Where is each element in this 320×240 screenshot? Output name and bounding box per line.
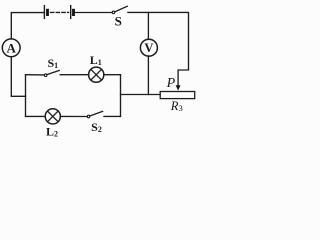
voltmeter V top lead: [147, 13, 149, 40]
svg-text:S2: S2: [91, 120, 102, 134]
wire top branch middle segment: [60, 74, 88, 76]
lamp L2: [45, 109, 60, 139]
svg-text:S: S: [115, 14, 122, 29]
battery B1 cell 1 long plate: [43, 6, 45, 19]
svg-text:R3: R3: [170, 99, 183, 113]
svg-text:P: P: [166, 76, 176, 91]
wire from switch to top-right corner, down right side to wiper: [128, 12, 189, 85]
wire left side below ammeter with jog to left node: [11, 57, 25, 97]
svg-text:L1: L1: [90, 53, 102, 67]
battery B1 cell 2 short thick plate: [72, 9, 75, 16]
node left bar: [25, 75, 27, 117]
rheostat R3 body: [160, 92, 195, 99]
wire top branch left segment: [26, 74, 45, 76]
switch S: [112, 6, 127, 28]
wire bottom branch left segment: [26, 115, 46, 117]
svg-text:L2: L2: [46, 125, 58, 139]
wire battery to switch S: [75, 12, 112, 14]
wire top branch right segment: [104, 74, 121, 76]
battery B1 cell 2 long plate: [70, 6, 72, 19]
wiper P arrowhead: [176, 85, 181, 90]
voltmeter V: [140, 39, 157, 56]
battery B1 cell 1 short thick plate: [46, 9, 49, 16]
svg-text:A: A: [7, 40, 17, 55]
wire bottom branch right segment: [104, 115, 121, 117]
svg-text:S1: S1: [47, 56, 58, 70]
battery dashed link: [51, 11, 69, 13]
wire bottom branch middle segment: [60, 115, 87, 117]
voltmeter V bottom lead: [147, 56, 149, 95]
node right bar: [120, 75, 122, 117]
wire top-left from corner to battery: [11, 13, 44, 39]
switch S2: [87, 111, 102, 134]
lamp L1: [89, 53, 104, 82]
ammeter A: [2, 39, 20, 57]
svg-text:V: V: [144, 41, 153, 55]
switch S1: [44, 56, 59, 76]
wire output from right node to rheostat left terminal: [121, 94, 161, 96]
